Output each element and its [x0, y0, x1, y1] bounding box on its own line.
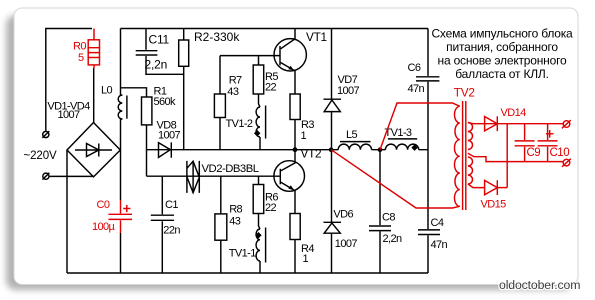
resistor R8 [220, 176, 222, 214]
wire VD15 row [468, 184, 485, 188]
svg-text:на основе электронного: на основе электронного [438, 53, 567, 67]
svg-text:22: 22 [265, 202, 277, 214]
svg-text:VT2: VT2 [301, 147, 322, 161]
svg-text:22: 22 [265, 81, 277, 93]
svg-text:47n: 47n [431, 239, 448, 251]
svg-text:VT1: VT1 [306, 30, 327, 44]
svg-text:VD2-DB3BL: VD2-DB3BL [202, 163, 259, 175]
svg-text:560k: 560k [154, 96, 177, 108]
svg-text:2,2n: 2,2n [383, 233, 402, 245]
resistor R0 [93, 29, 95, 40]
svg-text:VD6: VD6 [333, 209, 353, 221]
svg-text:R7: R7 [229, 75, 242, 87]
node junction R3/VT2 [293, 147, 298, 152]
svg-text:VD15: VD15 [481, 199, 507, 211]
terminal input 1 [43, 131, 49, 137]
capacitor C10 [547, 124, 549, 140]
node junction TV1-3 left [378, 147, 383, 152]
svg-text:TV2: TV2 [454, 85, 475, 99]
resistor R3 [290, 94, 300, 120]
winding TV1-2 [259, 94, 261, 107]
wire VD14 row [468, 123, 564, 124]
svg-text:C6: C6 [408, 62, 421, 74]
wire VT1 base wire [220, 55, 280, 57]
svg-text:C1: C1 [165, 199, 178, 211]
svg-text:100µ: 100µ [92, 221, 116, 233]
capacitor C11 [145, 29, 147, 50]
svg-text:R8: R8 [229, 204, 242, 216]
transistor VT2 [274, 161, 305, 192]
svg-text:R0: R0 [73, 41, 86, 53]
wire C0 lower black stub [120, 233, 122, 273]
wire terminal2 to bridge bottom corner [49, 175, 93, 177]
terminal output + [563, 121, 570, 128]
resistor R6 [258, 176, 260, 184]
capacitor C0 [120, 200, 122, 214]
wire vertical VD14-VD15 cathodes [506, 124, 508, 188]
svg-text:1: 1 [303, 253, 309, 265]
terminal output - [563, 159, 570, 166]
svg-text:питания, собранного: питания, собранного [446, 40, 558, 54]
diode VD15 [485, 180, 498, 195]
diode VD7 [331, 29, 333, 99]
svg-text:1007: 1007 [158, 130, 181, 142]
svg-text:2,2n: 2,2n [145, 58, 168, 72]
wire main box bottom rail [67, 272, 428, 274]
winding TV1-3 [385, 144, 418, 150]
svg-text:TV1-1: TV1-1 [229, 248, 256, 260]
svg-text:R2-330k: R2-330k [194, 30, 240, 44]
winding TV1-1 [259, 214, 261, 230]
svg-text:VD14: VD14 [501, 107, 527, 119]
diac VD2-DB3BL [187, 161, 199, 193]
svg-text:1007: 1007 [335, 238, 358, 250]
transformer TV2 secondary upper [468, 123, 473, 150]
capacitor C1 [161, 176, 163, 214]
svg-text:C9: C9 [527, 147, 541, 159]
wire red diagonal upper (row to TV2 primary top) [380, 103, 460, 150]
svg-text:TV1-3: TV1-3 [385, 127, 412, 139]
wire branch to R1 [121, 88, 147, 97]
svg-text:C4: C4 [431, 217, 444, 229]
capacitor C4 [418, 230, 440, 235]
svg-text:oldoctober.com: oldoctober.com [499, 278, 580, 292]
wire R0 bottom to bridge top [93, 68, 95, 123]
wire left box: terminal1 up and over to R0 [46, 29, 92, 131]
transformer TV2 secondary lower [468, 157, 473, 184]
svg-text:C11: C11 [149, 33, 170, 47]
svg-text:Схема импульсного блока: Схема импульсного блока [431, 27, 573, 41]
diode VD8 [147, 149, 169, 151]
wire main box top rail [121, 28, 429, 30]
inductor L0 [121, 95, 123, 119]
diode VD14 [485, 116, 498, 131]
svg-text:22n: 22n [163, 225, 180, 237]
svg-text:1: 1 [301, 130, 307, 142]
svg-text:~220V: ~220V [24, 150, 58, 162]
bridge rectifier VD1-VD4 diamond [67, 123, 120, 177]
resistor R4 [290, 214, 300, 240]
wire main box right vertical (C6/C4 gaps) [427, 29, 429, 274]
svg-text:43: 43 [227, 86, 239, 98]
diode VD6 [331, 150, 333, 223]
capacitor C8 [379, 150, 381, 225]
wire upper row (VD8 to right edge) [169, 149, 428, 151]
inductor L5 [338, 144, 371, 150]
transformer TV2 primary [454, 106, 459, 206]
svg-text:C10: C10 [550, 147, 570, 159]
svg-text:C8: C8 [382, 212, 395, 224]
bridge inner diode [75, 144, 112, 157]
wire red diagonal lower (row to TV2 primary bottom) [331, 150, 460, 208]
resistor R2 [183, 29, 185, 41]
svg-text:C0: C0 [97, 199, 110, 211]
wire main box left vertical (with L0 and C0 gaps) [120, 29, 122, 201]
terminal input 2 [43, 173, 49, 179]
svg-text:1007: 1007 [57, 109, 80, 121]
svg-text:1007: 1007 [337, 85, 360, 97]
wire R1 bottom down to diac row [146, 125, 148, 176]
svg-text:L5: L5 [346, 129, 358, 141]
wire diac row [147, 175, 281, 177]
wire center tap row [468, 153, 564, 161]
capacitor C9 [524, 124, 526, 140]
svg-text:TV1-2: TV1-2 [226, 118, 253, 130]
svg-text:5: 5 [78, 52, 84, 64]
svg-text:L0: L0 [101, 85, 113, 97]
capacitor C6 [416, 77, 439, 81]
svg-text:балласта от КЛЛ.: балласта от КЛЛ. [455, 67, 548, 81]
resistor R1 [142, 97, 152, 125]
wire bridge left corner down to bottom rail [66, 150, 68, 273]
resistor R7 [219, 56, 221, 94]
transformer TV2 core [463, 101, 466, 210]
transistor VT1 [274, 39, 306, 71]
svg-text:43: 43 [229, 216, 241, 228]
svg-text:47n: 47n [408, 83, 425, 95]
resistor R5 [258, 56, 260, 65]
node junction L5 left [329, 147, 334, 152]
